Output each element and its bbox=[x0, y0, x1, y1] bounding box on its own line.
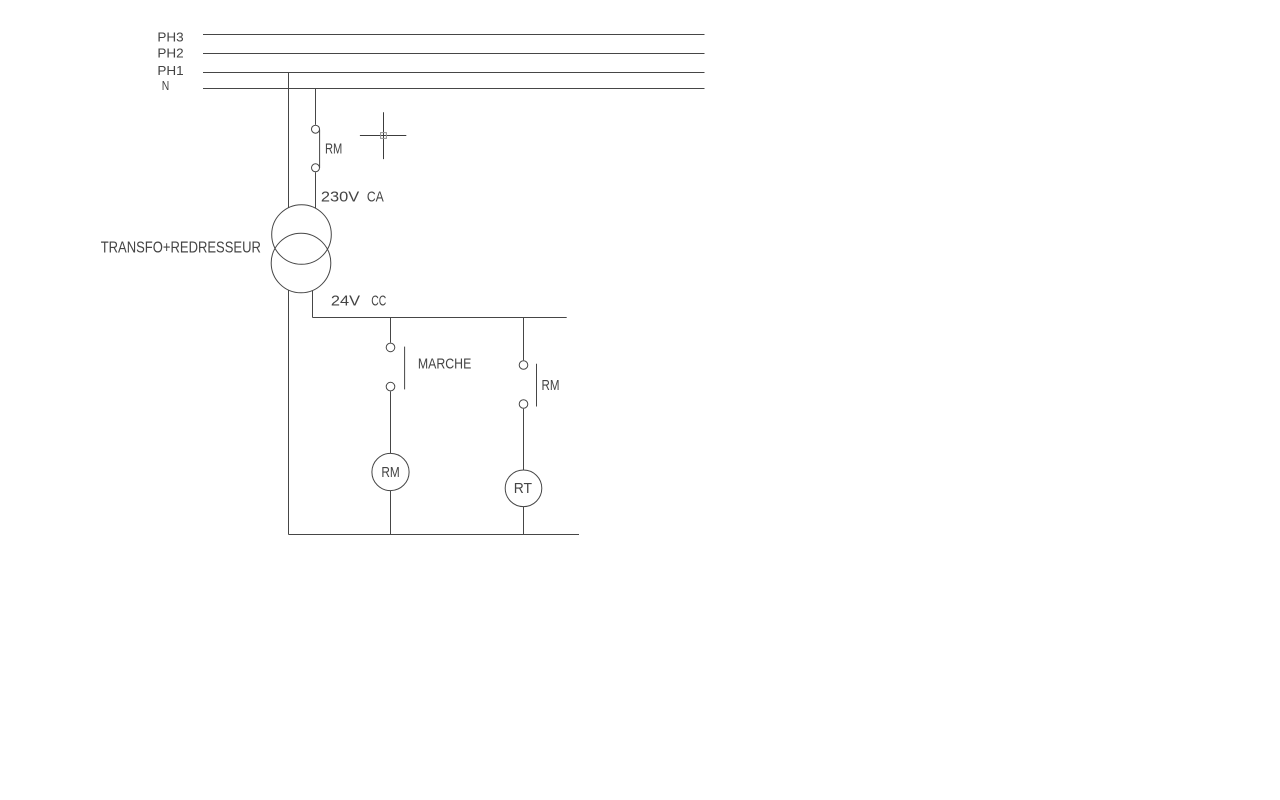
bus line PH2 bbox=[203, 53, 705, 55]
svg-text:MARCHE: MARCHE bbox=[418, 355, 471, 372]
wire PH1 drop to transformer primary bbox=[288, 73, 290, 208]
svg-text:RM: RM bbox=[542, 377, 560, 394]
contact MARCHE bbox=[386, 343, 404, 391]
bus line N bbox=[203, 88, 705, 90]
svg-text:PH2: PH2 bbox=[157, 45, 183, 60]
wire coil RM to bottom rail bbox=[390, 491, 392, 535]
svg-text:PH1: PH1 bbox=[157, 63, 183, 78]
wire contact RM to transformer bbox=[315, 172, 317, 208]
svg-text:RM: RM bbox=[325, 141, 342, 158]
wire contact RM to coil RT bbox=[523, 409, 525, 470]
cursor crosshair bbox=[360, 112, 406, 159]
wire contact MARCHE to coil RM bbox=[390, 391, 392, 453]
coil RM bbox=[372, 453, 409, 490]
svg-text:RT: RT bbox=[514, 480, 532, 497]
svg-text:N: N bbox=[162, 78, 170, 93]
wire N drop to contact RM bbox=[315, 89, 317, 125]
coil RT bbox=[505, 470, 542, 507]
svg-text:230VCA: 230VCA bbox=[321, 189, 384, 206]
wire coil RT to bottom rail bbox=[523, 507, 525, 535]
svg-text:PH3: PH3 bbox=[157, 30, 183, 45]
svg-text:RM: RM bbox=[381, 464, 399, 481]
contact RM (hold circuit) bbox=[519, 361, 536, 409]
wire secondary right (to 24V rail) bbox=[312, 291, 314, 318]
svg-text:24VCC: 24VCC bbox=[331, 292, 386, 309]
transformer T1 (transfo+redresseur) bbox=[271, 205, 331, 293]
contact RM (primary circuit) bbox=[312, 125, 320, 172]
wire 24V CC rail bbox=[313, 317, 567, 319]
wire branch2 top bbox=[523, 318, 525, 361]
wire bottom return rail bbox=[289, 534, 580, 536]
bus line PH1 bbox=[203, 72, 705, 74]
bus line PH3 bbox=[203, 34, 705, 36]
wire secondary left (to bottom rail) bbox=[288, 290, 290, 534]
wire branch1 top bbox=[390, 318, 392, 343]
svg-text:TRANSFO+REDRESSEUR: TRANSFO+REDRESSEUR bbox=[101, 239, 261, 256]
